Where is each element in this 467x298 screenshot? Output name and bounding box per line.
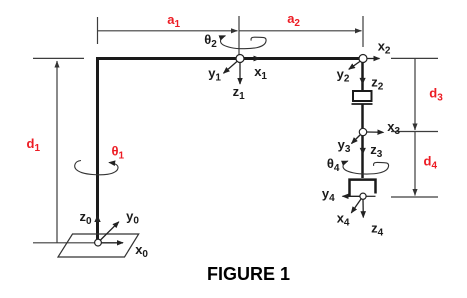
prismatic joint box: [353, 91, 372, 101]
svg-text:y1: y1: [208, 65, 221, 83]
svg-text:FIGURE 1: FIGURE 1: [207, 264, 290, 284]
dimension a1 left tick: [97, 17, 99, 44]
svg-text:y3: y3: [338, 137, 351, 155]
link arm horizontal (link1+link2): [96, 57, 363, 60]
axis z0 arrow: [94, 215, 100, 222]
svg-text:θ2: θ2: [204, 32, 217, 50]
svg-text:θ1: θ1: [112, 143, 125, 161]
axis y2 arrow: [349, 61, 361, 69]
link box to joint3: [361, 104, 364, 129]
wire joint4 to right bracket leg: [366, 195, 376, 197]
axis z1 arrow: [239, 63, 241, 85]
svg-text:x3: x3: [387, 119, 400, 137]
axis x4 arrow: [351, 199, 361, 213]
svg-text:a2: a2: [287, 11, 300, 29]
dimension d3/d4 middle tick: [391, 131, 438, 133]
axis x2 arrow: [367, 58, 380, 60]
dimension a1 line: [98, 30, 238, 32]
svg-text:x0: x0: [135, 242, 148, 260]
svg-text:y4: y4: [322, 186, 335, 204]
svg-text:z4: z4: [371, 220, 384, 238]
link base column: [96, 57, 99, 240]
dimension d3 top tick: [391, 57, 438, 59]
dimension d4 bottom tick: [391, 196, 438, 198]
axis y4 arrow: [343, 195, 360, 197]
dimension d1 line: [56, 61, 58, 243]
svg-text:d1: d1: [27, 136, 41, 154]
svg-text:z0: z0: [80, 209, 93, 227]
dimension a2 line: [239, 30, 362, 32]
prismatic joint lower plate line: [352, 103, 373, 105]
svg-text:x1: x1: [254, 64, 267, 82]
svg-text:z3: z3: [370, 142, 383, 160]
axis y0 arrow: [99, 222, 119, 242]
link joint3 to end-effector: [361, 135, 364, 178]
dimension middle tick (joint1 vertical line): [238, 16, 240, 55]
joint2 circle: [359, 55, 367, 63]
axis x0 arrow: [102, 242, 124, 244]
svg-text:x2: x2: [378, 39, 391, 57]
link joint2 to prismatic box: [361, 60, 364, 91]
dimension d3 line: [414, 58, 416, 130]
svg-text:x4: x4: [337, 210, 350, 228]
axis x3 arrow: [367, 131, 384, 133]
axis z3 arrowhead on link: [360, 148, 366, 155]
svg-text:y2: y2: [337, 67, 350, 85]
joint frame0 circle: [95, 239, 102, 246]
svg-text:y0: y0: [126, 209, 139, 227]
rotation arrow theta2: [220, 36, 266, 49]
svg-text:θ4: θ4: [327, 156, 340, 174]
svg-text:a1: a1: [167, 12, 180, 30]
svg-text:d3: d3: [429, 85, 443, 103]
svg-text:d4: d4: [424, 153, 438, 171]
axis z2 arrowhead on link: [360, 78, 366, 85]
axis x1 arrowhead on arm: [254, 56, 261, 62]
base plane parallelogram: [58, 234, 139, 257]
rotation arrow theta4: [343, 161, 389, 174]
svg-text:z1: z1: [233, 84, 246, 102]
joint3 circle: [359, 128, 366, 135]
joint4 circle: [360, 193, 366, 199]
axis y1 arrow: [224, 61, 238, 73]
dimension d1 top tick: [33, 57, 84, 59]
axis y3 arrow: [352, 135, 361, 144]
svg-text:z2: z2: [371, 74, 384, 92]
rotation arrow theta1: [75, 161, 118, 175]
end-effector bracket: [350, 180, 376, 196]
axis z4 arrow: [362, 199, 364, 217]
joint1 circle: [236, 55, 244, 63]
dimension d4 line: [414, 132, 416, 196]
dimension d1 bottom reference line: [33, 242, 95, 244]
dimension a2 right tick: [362, 16, 364, 47]
